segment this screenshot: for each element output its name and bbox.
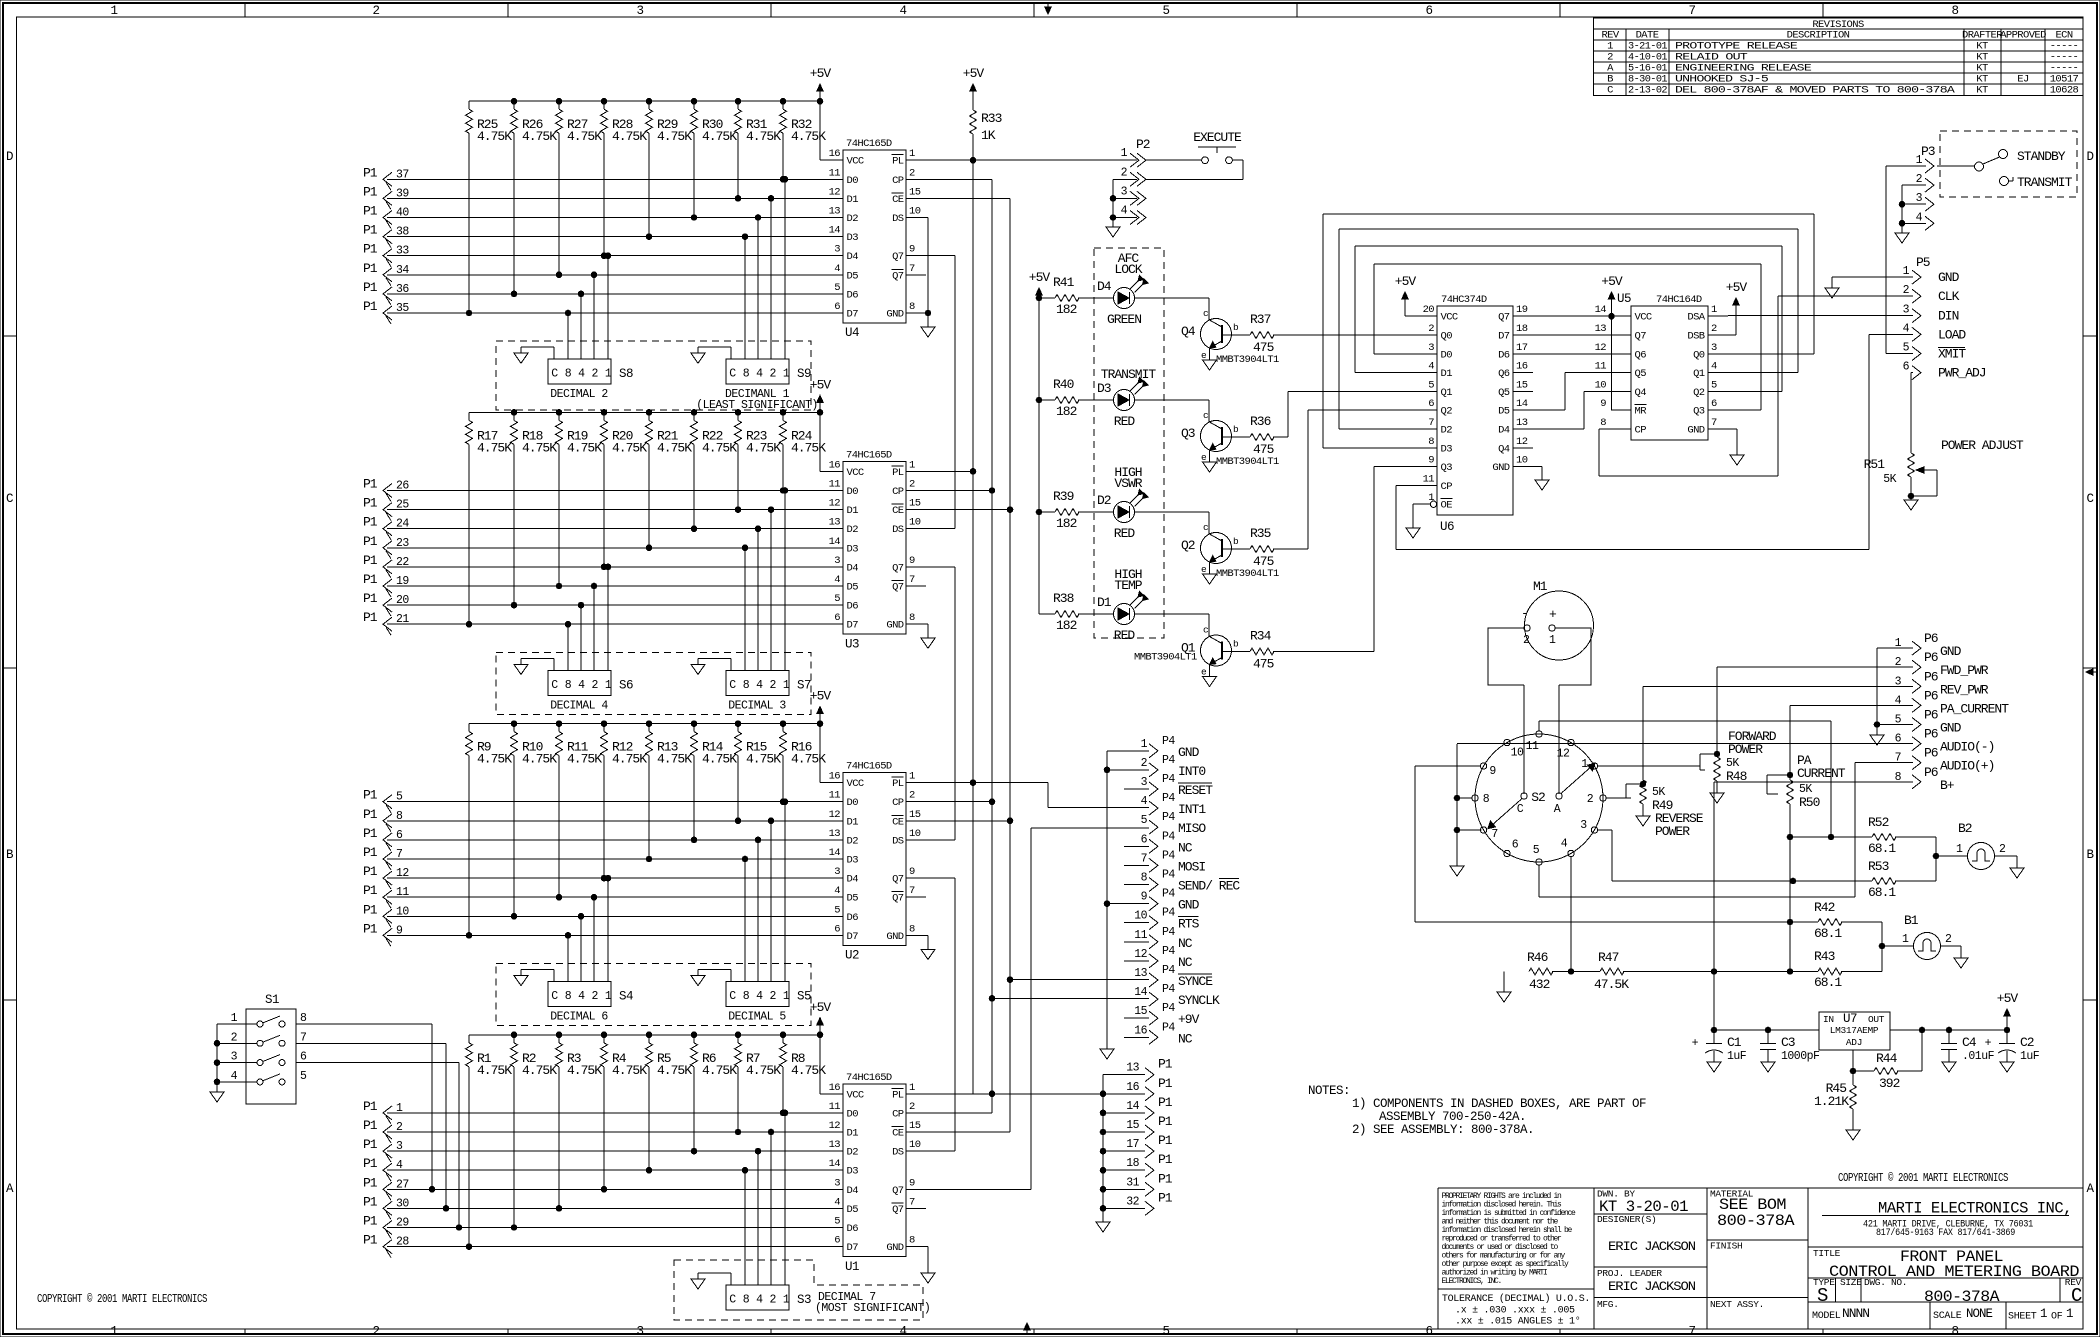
svg-text:D0: D0: [1441, 349, 1453, 361]
svg-text:7: 7: [909, 885, 915, 897]
+5V rail block U4: [810, 66, 832, 160]
svg-text:4.75K: 4.75K: [702, 440, 737, 455]
resistor R4 4.75K: [601, 1035, 648, 1192]
svg-text:P6: P6: [1924, 708, 1938, 723]
connector P1 pin 22: [363, 553, 409, 578]
ground S1: [210, 1024, 224, 1102]
svg-text:1: 1: [605, 368, 612, 381]
svg-text:+: +: [1985, 1037, 1992, 1050]
LED D2: [1097, 465, 1148, 541]
svg-text:10: 10: [1511, 747, 1524, 760]
svg-text:74HC165D: 74HC165D: [846, 761, 892, 773]
wire LED to Q2: [1135, 512, 1210, 534]
svg-text:8: 8: [1428, 436, 1434, 448]
svg-text:3: 3: [1916, 192, 1923, 205]
svg-text:D1: D1: [847, 194, 859, 206]
svg-text:2: 2: [591, 990, 598, 1003]
svg-text:R35: R35: [1250, 526, 1271, 541]
svg-text:2: 2: [909, 790, 915, 802]
svg-text:C2: C2: [2020, 1035, 2034, 1050]
svg-text:P4: P4: [1162, 830, 1175, 843]
svg-text:PA_CURRENT: PA_CURRENT: [1940, 701, 2009, 716]
wire S2 contacts 7 8 to AUDIO(-) and ground: [1450, 744, 1482, 876]
svg-text:P4: P4: [1162, 849, 1175, 862]
svg-text:MARTI ELECTRONICS INC,: MARTI ELECTRONICS INC,: [1878, 1200, 2072, 1218]
svg-text:P4: P4: [1162, 964, 1175, 977]
svg-text:182: 182: [1056, 618, 1077, 633]
svg-text:Q7: Q7: [1498, 312, 1510, 324]
wire DS to ground: [925, 218, 931, 316]
transistor Q3 MMBT3904LT1: [1181, 410, 1279, 468]
ground Q4: [1203, 348, 1217, 370]
wire CP net: [926, 488, 995, 494]
svg-text:Q0: Q0: [1441, 331, 1453, 343]
svg-text:R52: R52: [1868, 815, 1889, 830]
wire: [387, 197, 843, 199]
svg-text:LM317AEMP: LM317AEMP: [1830, 1025, 1879, 1036]
svg-text:1) COMPONENTS IN DASHED BOXES,: 1) COMPONENTS IN DASHED BOXES, ARE PART …: [1352, 1097, 1646, 1111]
svg-text:4: 4: [1916, 211, 1923, 224]
svg-text:Q5: Q5: [1498, 387, 1510, 399]
resistor R17 4.75K: [466, 412, 513, 627]
svg-text:MMBT3904LT1: MMBT3904LT1: [1216, 354, 1279, 366]
svg-text:13: 13: [1134, 967, 1147, 980]
svg-text:C: C: [729, 990, 736, 1003]
svg-text:P1: P1: [363, 299, 378, 314]
svg-text:8: 8: [300, 1012, 307, 1025]
svg-text:10: 10: [1595, 379, 1607, 391]
wire Q7 cascade: [926, 566, 955, 568]
wire FWD_PWR to R48: [1717, 667, 1913, 757]
svg-text:KT: KT: [1976, 85, 1988, 97]
svg-text:1uF: 1uF: [1727, 1050, 1747, 1063]
svg-text:12: 12: [1557, 748, 1570, 761]
svg-text:4.75K: 4.75K: [657, 129, 692, 144]
resistor R19 4.75K: [556, 412, 603, 588]
wire Q7 cascade: [926, 877, 955, 879]
svg-text:P1: P1: [363, 223, 378, 238]
pullup bus wire block U4: [469, 98, 823, 104]
wire R35 to U6 Q2: [1273, 410, 1417, 549]
wire PL to INT1: [973, 783, 1149, 808]
svg-text:b: b: [1233, 639, 1239, 650]
svg-text:Q6: Q6: [1635, 349, 1647, 361]
wire DS from cascade: [926, 528, 955, 530]
svg-text:P2: P2: [1136, 137, 1150, 152]
svg-text:11: 11: [829, 1101, 841, 1113]
svg-text:7: 7: [1141, 852, 1147, 865]
svg-text:.xx ± .015 ANGLES ± 1°: .xx ± .015 ANGLES ± 1°: [1455, 1316, 1580, 1328]
svg-text:(LEAST SIGNIFICANT): (LEAST SIGNIFICANT): [696, 399, 818, 412]
svg-text:1: 1: [1141, 738, 1148, 751]
resistor R7 4.75K: [735, 1035, 782, 1135]
svg-text:Q4: Q4: [1498, 443, 1510, 455]
wire B+ to U7 input: [1714, 782, 1913, 1030]
svg-text:P4: P4: [1162, 735, 1175, 748]
svg-text:P4: P4: [1162, 773, 1175, 786]
svg-text:CE: CE: [892, 505, 904, 517]
svg-text:B: B: [2086, 848, 2094, 862]
wire LED to Q3: [1135, 400, 1210, 422]
svg-text:A: A: [1554, 803, 1561, 816]
svg-text:D4: D4: [1097, 279, 1112, 294]
svg-text:4.75K: 4.75K: [702, 1063, 737, 1078]
ground R51: [1904, 500, 1918, 510]
svg-text:DWG. NO.: DWG. NO.: [1864, 1277, 1907, 1288]
resistor R52 68.1: [1787, 815, 1936, 856]
svg-text:.01uF: .01uF: [1962, 1050, 1995, 1063]
svg-text:U4: U4: [845, 326, 859, 340]
svg-text:7: 7: [1688, 1325, 1695, 1337]
svg-text:DECIMAL 3: DECIMAL 3: [728, 699, 786, 712]
svg-text:1: 1: [110, 4, 117, 18]
wire VCC: [820, 412, 843, 471]
connector P1 pin 12: [363, 864, 409, 889]
svg-text:+5V: +5V: [1997, 991, 2019, 1006]
svg-text:PWR_ADJ: PWR_ADJ: [1938, 366, 1986, 381]
svg-text:P5: P5: [1916, 255, 1930, 270]
svg-text:COPYRIGHT © 2001 MARTI ELECTRO: COPYRIGHT © 2001 MARTI ELECTRONICS: [1838, 1172, 2008, 1185]
svg-text:6: 6: [1428, 398, 1434, 410]
svg-text:INT0: INT0: [1178, 764, 1205, 779]
svg-text:3: 3: [1428, 342, 1434, 354]
wire: [387, 839, 843, 841]
wire U6 Q7 to +5V: [1533, 315, 1612, 317]
svg-text:TITLE: TITLE: [1813, 1248, 1841, 1259]
svg-text:P1: P1: [1158, 1190, 1173, 1205]
svg-text:R44: R44: [1876, 1051, 1898, 1066]
svg-text:13: 13: [829, 517, 841, 529]
svg-text:TRANSMIT: TRANSMIT: [1101, 367, 1157, 382]
svg-text:475: 475: [1253, 442, 1274, 457]
switch S9: [726, 359, 789, 384]
connector P1 pin 6: [363, 826, 403, 851]
wire S2 contact 11 to R52: [1539, 721, 1834, 840]
svg-text:P1: P1: [363, 826, 378, 841]
svg-text:P1: P1: [363, 261, 378, 276]
svg-text:15: 15: [909, 809, 921, 821]
svg-text:817/645-9163 FAX 817/641-3869: 817/645-9163 FAX 817/641-3869: [1876, 1227, 2015, 1239]
resistor R35 475: [1250, 526, 1274, 569]
svg-text:6: 6: [1903, 361, 1910, 374]
wire loop U5 Q1 to U6 D2: [1339, 229, 1798, 429]
svg-text:ASSEMBLY 700-250-42A.: ASSEMBLY 700-250-42A.: [1379, 1110, 1526, 1124]
svg-text:2-13-02: 2-13-02: [1628, 85, 1667, 97]
svg-text:P1: P1: [363, 1118, 378, 1133]
potentiometer R50 5K PA CURRENT: [1767, 753, 1846, 972]
wire LOAD to U6 CP: [1396, 334, 1913, 549]
svg-text:SYNCE: SYNCE: [1178, 974, 1213, 989]
ground R46: [1497, 972, 1511, 1003]
svg-text:D4: D4: [1498, 425, 1510, 437]
svg-text:S: S: [1817, 1285, 1828, 1307]
svg-text:4: 4: [1711, 361, 1717, 373]
wire U6 D5 to U5 Q5: [1533, 373, 1611, 411]
svg-text:GND: GND: [886, 931, 903, 943]
wire R34 to U6 Q3: [1273, 467, 1417, 652]
svg-text:9: 9: [909, 244, 915, 256]
connector P1 pin 4: [363, 1156, 403, 1181]
svg-text:2: 2: [1916, 173, 1923, 186]
svg-text:2: 2: [1141, 757, 1148, 770]
resistor R26 4.75K: [511, 101, 558, 297]
svg-text:+5V: +5V: [810, 377, 832, 392]
svg-text:8: 8: [743, 1294, 750, 1307]
svg-text:DECIMAL 4: DECIMAL 4: [550, 699, 608, 712]
resistor R16 4.75K: [780, 724, 827, 805]
proprietary rights text: [1442, 1192, 1591, 1328]
svg-text:NC: NC: [1178, 955, 1193, 970]
svg-text:Q7: Q7: [892, 893, 904, 905]
svg-text:5K: 5K: [1883, 473, 1896, 486]
capacitor C2 1uF: [1985, 1030, 2040, 1063]
svg-text:+: +: [1692, 1037, 1699, 1050]
svg-text:12: 12: [1595, 342, 1607, 354]
wire CP net: [926, 178, 992, 180]
svg-text:R43: R43: [1814, 949, 1835, 964]
svg-text:1: 1: [1902, 933, 1909, 946]
svg-text:NONE: NONE: [1966, 1306, 1993, 1321]
svg-text:2) SEE ASSEMBLY: 800-378A.: 2) SEE ASSEMBLY: 800-378A.: [1352, 1123, 1534, 1137]
svg-text:GND: GND: [1687, 425, 1704, 437]
svg-text:SHEET: SHEET: [2008, 1312, 2037, 1323]
svg-text:4: 4: [1428, 361, 1434, 373]
svg-text:2: 2: [769, 679, 776, 692]
connector P1 pin 1: [363, 1099, 403, 1124]
svg-text:NC: NC: [1178, 936, 1193, 951]
svg-text:4: 4: [834, 574, 840, 586]
wire: [387, 255, 843, 257]
shift register U2 74HC165D: [823, 761, 926, 963]
svg-text:8: 8: [565, 679, 572, 692]
svg-text:10: 10: [909, 1139, 921, 1151]
svg-text:5: 5: [1141, 814, 1148, 827]
svg-text:Q3: Q3: [1441, 462, 1453, 474]
connector P4: [1124, 735, 1240, 1047]
wire execute loop: [1113, 160, 1243, 179]
svg-text:4: 4: [899, 4, 906, 18]
wire SYNCE: [1010, 979, 1149, 981]
svg-text:3: 3: [834, 244, 840, 256]
svg-text:D2: D2: [847, 524, 859, 536]
svg-text:5: 5: [834, 282, 840, 294]
svg-text:CP: CP: [892, 797, 904, 809]
svg-text:PL: PL: [892, 156, 904, 168]
svg-text:POWER: POWER: [1728, 742, 1763, 757]
wire P5 GND: [1825, 277, 1913, 298]
svg-text:4.75K: 4.75K: [702, 129, 737, 144]
svg-text:4.75K: 4.75K: [522, 752, 557, 767]
svg-text:14: 14: [829, 847, 841, 859]
svg-text:P1: P1: [363, 864, 378, 879]
svg-text:12: 12: [829, 809, 841, 821]
svg-text:2: 2: [591, 368, 598, 381]
resistor R5 4.75K: [646, 1035, 693, 1173]
svg-text:B1: B1: [1904, 913, 1919, 928]
wires S1 to U1 inputs: [296, 1024, 462, 1230]
wire S2 contact 5 to AUDIO(+): [1539, 865, 1855, 897]
svg-text:GND: GND: [1940, 721, 1962, 736]
svg-text:CE: CE: [892, 1128, 904, 1140]
svg-text:P1: P1: [363, 496, 378, 511]
resistor R28 4.75K: [601, 101, 648, 258]
svg-text:IN: IN: [1823, 1014, 1834, 1025]
svg-text:182: 182: [1056, 302, 1077, 317]
svg-text:OF: OF: [2051, 1312, 2063, 1323]
svg-text:16: 16: [1516, 361, 1528, 373]
connector P1 pin 5: [363, 788, 403, 813]
svg-text:SEND/ REC: SEND/ REC: [1178, 879, 1240, 894]
svg-text:6: 6: [834, 923, 840, 935]
wire CE bus: [1007, 198, 1013, 1132]
svg-text:D1: D1: [1097, 595, 1112, 610]
svg-text:14: 14: [1516, 398, 1528, 410]
svg-text:U6: U6: [1440, 520, 1454, 534]
svg-text:EJ: EJ: [2017, 73, 2029, 85]
+5V rail block U1: [810, 1000, 832, 1094]
svg-text:3: 3: [636, 4, 643, 18]
svg-text:4.75K: 4.75K: [522, 1063, 557, 1078]
svg-text:7: 7: [1711, 417, 1717, 429]
svg-text:8: 8: [565, 368, 572, 381]
svg-text:VCC: VCC: [1635, 312, 1652, 324]
resistor R24 4.75K: [780, 412, 827, 493]
svg-text:11: 11: [1595, 361, 1607, 373]
svg-text:C: C: [1517, 803, 1524, 816]
svg-text:20: 20: [1423, 304, 1435, 316]
title block entries: [1597, 1189, 2082, 1323]
svg-text:AUDIO(+): AUDIO(+): [1940, 759, 1994, 774]
svg-text:OUT: OUT: [1868, 1014, 1885, 1025]
svg-text:OE: OE: [1441, 500, 1453, 512]
resistor R40 182: [1039, 377, 1114, 419]
svg-text:4: 4: [578, 990, 585, 1003]
resistor R25 4.75K: [466, 101, 513, 316]
wire U7 output row: [1890, 1027, 2010, 1033]
svg-text:2: 2: [909, 479, 915, 491]
svg-text:2: 2: [769, 368, 776, 381]
pullup bus wire block U3: [469, 410, 823, 416]
resistor R8 4.75K: [780, 1035, 827, 1116]
svg-text:P1: P1: [363, 591, 378, 606]
svg-text:P1: P1: [1158, 1133, 1173, 1148]
svg-text:S2: S2: [1531, 790, 1545, 805]
svg-text:68.1: 68.1: [1814, 975, 1842, 990]
svg-text:P4: P4: [1162, 945, 1175, 958]
svg-text:1.21K: 1.21K: [1814, 1094, 1849, 1109]
svg-text:Q2: Q2: [1693, 387, 1705, 399]
svg-text:9: 9: [909, 866, 915, 878]
svg-text:D3: D3: [847, 543, 859, 555]
svg-text:+5V: +5V: [1395, 274, 1417, 289]
svg-text:1: 1: [1549, 634, 1556, 647]
svg-text:D7: D7: [847, 931, 859, 943]
svg-text:6: 6: [1425, 4, 1432, 18]
svg-text:CE: CE: [892, 816, 904, 828]
wire VCC: [820, 724, 843, 783]
svg-text:(MOST SIGNIFICANT): (MOST SIGNIFICANT): [815, 1302, 930, 1315]
wire Q7 cascade: [926, 255, 955, 257]
wire loop U5 Q3 to U6 D0: [1374, 264, 1761, 410]
svg-text:74HC165D: 74HC165D: [846, 1072, 892, 1084]
wire CE net: [926, 197, 1010, 199]
svg-text:Q7: Q7: [1635, 331, 1647, 343]
wire DS from cascade: [926, 1150, 955, 1152]
svg-text:VCC: VCC: [847, 156, 864, 168]
svg-text:1uF: 1uF: [2020, 1050, 2040, 1063]
wire U6 D6 to U5 Q6: [1533, 353, 1631, 355]
svg-text:C: C: [2086, 492, 2093, 506]
svg-text:P1: P1: [363, 553, 378, 568]
svg-text:P6: P6: [1924, 765, 1938, 780]
svg-text:10: 10: [1516, 455, 1528, 467]
svg-text:P1: P1: [1158, 1095, 1173, 1110]
connector P1 pin 25: [363, 496, 409, 521]
svg-text:8: 8: [1141, 872, 1148, 885]
ground Q2: [1203, 562, 1217, 584]
wire: [387, 1227, 843, 1229]
svg-text:13: 13: [829, 1139, 841, 1151]
svg-text:P1: P1: [363, 204, 378, 219]
potentiometer R49 5K REVERSE POWER: [1626, 780, 1704, 839]
svg-text:+5V: +5V: [1726, 280, 1748, 295]
svg-text:7: 7: [909, 263, 915, 275]
svg-text:4: 4: [1561, 837, 1568, 850]
svg-text:3: 3: [1903, 304, 1910, 317]
wire DIN from U5 DSA: [1728, 315, 1913, 317]
svg-text:3: 3: [1580, 819, 1587, 832]
svg-text:GND: GND: [1938, 270, 1960, 285]
svg-text:R41: R41: [1053, 275, 1075, 290]
wire AUDIO(-): [1457, 743, 1913, 745]
wire P1 bottom rail: [1096, 1075, 1110, 1232]
ground switch S3: [691, 1273, 731, 1289]
svg-text:Q5: Q5: [1635, 368, 1647, 380]
svg-text:e: e: [1201, 667, 1207, 678]
svg-text:2: 2: [1999, 843, 2006, 856]
svg-text:AUDIO(-): AUDIO(-): [1940, 740, 1994, 755]
svg-text:15: 15: [909, 1120, 921, 1132]
svg-text:MFG.: MFG.: [1597, 1299, 1619, 1310]
svg-text:P1: P1: [363, 1214, 378, 1229]
svg-text:2: 2: [1523, 634, 1530, 647]
connector P1 pin 37: [363, 165, 409, 190]
resistor R29 4.75K: [646, 101, 693, 239]
wire: [387, 585, 843, 587]
svg-text:P1: P1: [363, 1175, 378, 1190]
svg-text:P6: P6: [1924, 650, 1938, 665]
svg-text:Q1: Q1: [1693, 368, 1705, 380]
svg-text:475: 475: [1253, 554, 1274, 569]
svg-text:8: 8: [743, 990, 750, 1003]
svg-text:11: 11: [829, 167, 841, 179]
svg-text:2: 2: [231, 1031, 238, 1044]
resistor R41 182: [1039, 275, 1114, 317]
+5V U6: [1395, 274, 1417, 316]
svg-text:1: 1: [909, 459, 915, 471]
switch S7: [726, 670, 789, 695]
svg-text:P1: P1: [363, 184, 378, 199]
svg-text:1: 1: [909, 148, 915, 160]
ground B1: [1954, 958, 1968, 968]
svg-text:D2: D2: [1441, 425, 1453, 437]
svg-text:C: C: [729, 679, 736, 692]
svg-text:2: 2: [909, 1101, 915, 1113]
wire PL net: [926, 469, 976, 475]
switch S1: [217, 993, 307, 1104]
svg-text:392: 392: [1879, 1076, 1900, 1091]
wire S2 contact 4 to R46 R47 junction: [1568, 857, 1574, 975]
